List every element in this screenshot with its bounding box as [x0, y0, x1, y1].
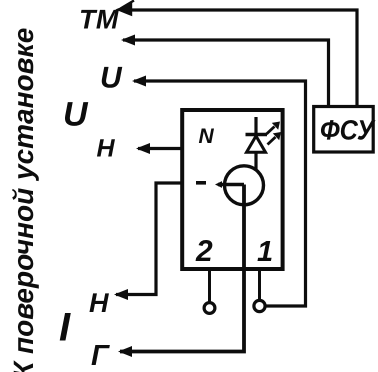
arrow TM2 head	[121, 35, 135, 46]
svg-text:ФСУ: ФСУ	[320, 115, 376, 146]
current source circle	[225, 166, 264, 205]
meter box	[182, 110, 282, 269]
wire G (current source to G arrow)	[120, 185, 244, 352]
svg-text:К поверочной установке: К поверочной установке	[8, 28, 39, 372]
svg-text:Г: Г	[91, 340, 110, 372]
LED emission arrow 1 head	[272, 122, 280, 130]
svg-text:U: U	[100, 62, 123, 95]
wire minus to H bottom	[116, 183, 182, 295]
wire inside circle	[218, 183, 244, 186]
wire U line	[134, 81, 306, 306]
svg-text:U: U	[63, 96, 89, 134]
arrow TM1 head	[119, 1, 135, 15]
pin 2 lead	[208, 269, 211, 302]
wire TM line 1	[121, 10, 357, 105]
pin 1 lead	[258, 269, 261, 300]
svg-text:1: 1	[257, 236, 273, 268]
LED emission arrow 1	[267, 127, 275, 135]
FSU box	[314, 107, 374, 153]
LED VD triangle	[247, 136, 266, 152]
svg-text:N: N	[199, 125, 215, 148]
wire TM line 2	[123, 40, 329, 105]
svg-text:2: 2	[195, 235, 213, 268]
svg-text:I: I	[59, 306, 71, 350]
wire H top	[138, 147, 182, 150]
pin 1 terminal circle	[254, 300, 265, 311]
arrow U head	[132, 76, 146, 87]
minus sign	[196, 181, 206, 185]
LED VD lead top	[254, 117, 257, 136]
arrow H bottom head	[114, 289, 128, 300]
junction blob	[215, 181, 222, 188]
LED VD cathode bar	[246, 133, 268, 136]
pin 2 terminal circle	[204, 303, 215, 314]
LED emission arrow 2 head	[273, 132, 281, 140]
arrow H top head	[136, 143, 150, 154]
LED VD lead bottom	[254, 152, 257, 171]
svg-text:Н: Н	[89, 288, 109, 318]
svg-text:Н: Н	[97, 134, 116, 162]
svg-text:ТМ: ТМ	[79, 5, 119, 35]
arrow G head	[118, 346, 132, 357]
LED emission arrow 2	[268, 137, 276, 145]
